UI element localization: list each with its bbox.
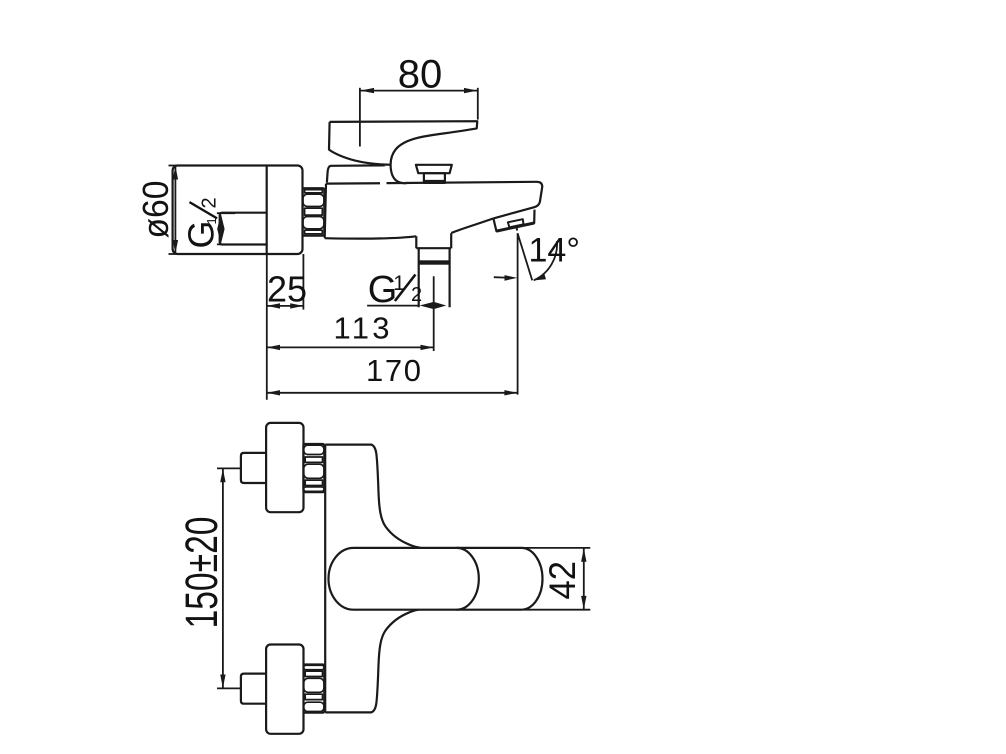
diverter knob stem [424,173,445,183]
deck raised-back top edge [327,165,388,182]
dim 25 line [267,305,304,307]
lever handle pill (front view) [329,548,543,610]
dim 42 line [583,549,585,610]
G1/2 inlet stub (side view) [220,213,267,245]
svg-text:14°: 14° [529,232,580,270]
14 deg vertical reference line (also 170 right extension) [517,233,519,394]
svg-text:2: 2 [199,197,221,208]
14 deg arc [534,241,557,280]
svg-text:ø60: ø60 [135,181,176,239]
dim 170 line [267,392,518,394]
dim 25 right extension [302,254,304,310]
lever handle (side view) [330,121,478,183]
lower hex union nut (front view) [303,665,324,713]
lever rear edge and wedge underside [329,122,391,165]
aerator inner screen rect [508,219,524,227]
14 deg arc arrowhead [533,274,546,281]
lower wall flange (front view) [266,645,303,734]
dim 25 arrowheads [267,303,304,308]
dim G1/2 shower diamond arrow [420,302,447,309]
svg-text:80: 80 [398,52,443,96]
upper G1/2 stub (front view) [241,453,266,483]
svg-text:150±20: 150±20 [176,517,227,629]
dim G1/2 flange ticks [217,212,235,214]
body back edge (side view) [325,184,326,239]
diverter knob cap [416,165,452,173]
dim ø60 extension lines [169,165,179,167]
wall flange / escutcheon (side view) [173,166,303,255]
upper wall flange (front view) [266,423,303,512]
hex union nut (side view) [303,188,325,236]
wall plane face line on flange [266,166,268,255]
dim 150±20 extension lines [217,467,240,469]
dim 150±20 arrowheads [220,469,225,688]
aerator center tick [516,228,518,231]
spout underside right of shower outlet [451,218,493,233]
dim G1/2 shower leader line [367,305,418,307]
body outline (front view) [325,445,420,548]
dim 42 arrowheads [581,548,586,609]
aerator thick bottom edge [496,223,534,231]
svg-text:42: 42 [542,561,583,600]
14 deg tail arrowhead [505,275,518,281]
svg-text:113: 113 [334,311,390,346]
deck top edge [326,182,542,219]
aerator spout end [493,210,534,232]
dim 42 extension lines [524,547,590,549]
svg-text:25: 25 [267,269,307,310]
label G1/2 left (rotated) [181,197,222,248]
dim 113 line [267,346,434,348]
shower outlet centerline (113 right extension) [433,276,435,351]
svg-text:2: 2 [411,284,422,306]
dim 113 arrowheads [267,345,434,350]
body wall-side edge (front view) [324,445,326,713]
diverter knob dark band [424,180,445,183]
dim 170 arrowheads [267,390,518,395]
dim ø60 line [174,166,176,253]
dim 150±20 line [222,469,224,688]
shower outlet upper section [416,233,451,248]
body underside left of shower outlet [325,236,417,238]
lower G1/2 stub (front view) [241,674,266,704]
svg-text:170: 170 [366,353,421,388]
shower outlet threaded section [419,248,450,307]
14 deg tail line [494,276,506,278]
dim 80 arrowheads [360,88,477,93]
dim ø60 arrowheads [173,166,178,253]
upper hex union nut (front view) [303,444,324,492]
left extension line (wall plane, for 25/113/170) [266,254,268,400]
dim 80 extension lines [359,88,361,147]
dim 80 line [360,90,477,92]
lever hub inner arc (front view) [457,548,479,610]
shower outlet dark groove band [419,260,450,264]
14 deg slant line [518,233,533,280]
dim G1/2 flange diamond arrow [217,214,224,244]
